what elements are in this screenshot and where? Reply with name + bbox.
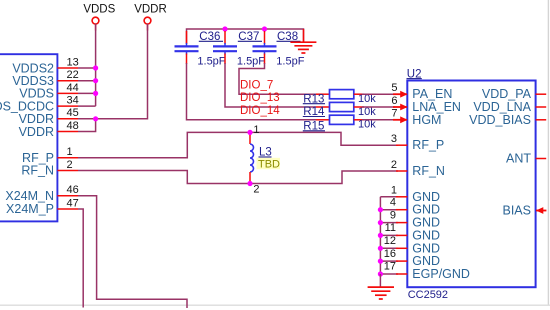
svg-text:47: 47 [67, 197, 79, 209]
wire X24M_P [78, 209, 83, 308]
U2 reference label [407, 68, 422, 80]
U2 pin 9 wire+stub (GND) [380, 222, 407, 224]
L3 value TBD (highlighted) [257, 158, 281, 171]
U2 right pin ANT stub [536, 158, 547, 160]
power symbol VDDR [134, 4, 167, 31]
junction dot rail C38 [262, 26, 267, 31]
svg-text:1: 1 [67, 146, 73, 158]
junction dot rail C37 [222, 26, 227, 31]
junction dot GND pin11 [378, 233, 383, 238]
svg-text:7: 7 [391, 108, 397, 120]
inductor L3 [250, 132, 254, 183]
wire C37 bottom to R14 (net DIO_13) [225, 63, 316, 107]
svg-text:12: 12 [384, 235, 396, 247]
pin 22 stub [57, 80, 78, 82]
svg-text:2: 2 [253, 184, 259, 196]
svg-text:RF_P: RF_P [412, 138, 444, 152]
wire VDDR vertical [78, 24, 148, 119]
wire pin34 to bus [78, 105, 96, 107]
U2 right pin BIAS arrow (input) [536, 207, 547, 214]
resistor R14 [316, 102, 364, 111]
resistor R15 [316, 115, 364, 124]
C36 reference label [199, 31, 223, 43]
L3 reference label [259, 147, 272, 159]
junction dot L3 pin2 [247, 181, 252, 186]
page frame bottom border [0, 304, 550, 306]
svg-text:VDDR: VDDR [19, 125, 54, 139]
wire RF_N from MCU [78, 171, 398, 184]
pin 46 stub (X24M_N) [57, 195, 78, 197]
U2 pin 17 wire+stub (EGP/GND) [380, 273, 407, 275]
R13 reference label [303, 93, 325, 105]
svg-text:2: 2 [67, 159, 73, 171]
pin 2 stub (RF_N) [57, 170, 78, 172]
junction dot VDDS pin13 [93, 65, 98, 70]
svg-text:DIO_13: DIO_13 [240, 92, 280, 104]
svg-text:2: 2 [391, 159, 397, 171]
svg-text:9: 9 [390, 209, 396, 221]
svg-text:45: 45 [67, 107, 79, 119]
U2 pin 4 wire+stub (GND) [380, 209, 407, 211]
svg-text:GND: GND [412, 190, 440, 204]
svg-text:TBD: TBD [258, 158, 280, 170]
U2 pin 11 wire+stub (GND) [380, 234, 407, 236]
pin 34 stub [57, 105, 78, 107]
wire RF_P from MCU [78, 132, 398, 157]
wire VDDR pin48 link [78, 119, 96, 132]
C38 reference label [277, 31, 301, 43]
svg-text:3: 3 [391, 133, 397, 145]
svg-text:48: 48 [67, 120, 79, 132]
svg-text:DIO_14: DIO_14 [240, 105, 280, 117]
power symbol VDDS [83, 4, 115, 31]
U2 pin 5 arrow (PA_EN input) [393, 91, 408, 98]
U2 pin 3 stub (RF_P) [396, 144, 407, 146]
ground (top, near C38) [290, 29, 316, 53]
wire pin13 to bus [78, 67, 96, 69]
U2 pin 2 stub (RF_N) [396, 170, 407, 172]
wire R15 to U2 pin7 [362, 119, 395, 121]
wire VDDS vertical bus [95, 24, 97, 107]
U2 pin 12 wire+stub (GND) [380, 247, 407, 249]
svg-text:BIAS: BIAS [503, 204, 532, 218]
U2 GND bus vertical [379, 197, 381, 274]
svg-text:44: 44 [67, 82, 79, 94]
R14 reference label [303, 106, 325, 118]
U2 right pin VDD_PA stub [536, 93, 547, 95]
svg-text:VDDS: VDDS [83, 4, 115, 16]
pin 45 stub [57, 118, 78, 120]
U2 block body (CC2592) [407, 81, 535, 288]
svg-text:X24M_N: X24M_N [5, 189, 54, 203]
svg-text:13: 13 [67, 56, 79, 68]
svg-text:6: 6 [391, 95, 397, 107]
R15 reference label [303, 121, 325, 133]
U2 pin 16 wire+stub (GND) [380, 260, 407, 262]
svg-text:17: 17 [384, 261, 396, 273]
ground (below U2 GND bus) [368, 274, 394, 299]
svg-text:CC2592: CC2592 [408, 289, 448, 301]
junction dot L3 pin1 [247, 130, 252, 135]
svg-text:46: 46 [67, 184, 79, 196]
capacitor C36 [175, 31, 199, 64]
C37 reference label [238, 31, 262, 43]
pin 48 stub [57, 131, 78, 133]
pin 1 stub (RF_P) [57, 157, 78, 159]
junction dot VDDR pin45 [93, 116, 98, 121]
wire R14 to U2 pin6 [362, 106, 395, 108]
junction dot GND pin12 [378, 246, 383, 251]
svg-text:GND: GND [412, 228, 440, 242]
junction dot GND pin9 [378, 220, 383, 225]
wire C36 bottom to R15 (net DIO_14) [187, 63, 317, 120]
U2 pin 6 arrow (LNA_EN input) [393, 104, 408, 111]
svg-text:4: 4 [390, 196, 396, 208]
svg-text:1: 1 [253, 124, 259, 136]
svg-text:1.5pF: 1.5pF [197, 55, 225, 67]
svg-text:RF_N: RF_N [412, 164, 445, 178]
page frame right border [547, 0, 549, 305]
svg-text:34: 34 [67, 95, 79, 107]
svg-text:1: 1 [391, 185, 397, 197]
capacitor C37 [213, 31, 237, 64]
svg-text:5: 5 [391, 82, 397, 94]
svg-text:GND: GND [412, 203, 440, 217]
svg-text:X24M_P: X24M_P [6, 202, 54, 216]
wire C38 bottom to R13 (net DIO_7) [239, 63, 316, 94]
svg-text:1.5pF: 1.5pF [276, 55, 304, 67]
svg-text:ANT: ANT [506, 152, 531, 166]
junction dot GND pin4 [378, 207, 383, 212]
U2 pin 7 arrow (HGM input) [393, 116, 408, 123]
svg-text:HGM: HGM [412, 113, 441, 127]
svg-text:VDD_BIAS: VDD_BIAS [469, 113, 531, 127]
junction dot VDDS pin22 [93, 78, 98, 83]
wire R13 to U2 pin5 [362, 93, 395, 95]
pin 44 stub [57, 92, 78, 94]
wire pin22 to bus [78, 80, 96, 82]
pin 47 stub (X24M_P) [57, 208, 78, 210]
U2 right pin VDD_BIAS stub [536, 119, 547, 121]
svg-text:GND: GND [412, 254, 440, 268]
resistor R13 [316, 90, 364, 99]
wire capacitor top rail [187, 29, 304, 44]
svg-text:EGP/GND: EGP/GND [412, 267, 470, 281]
svg-text:DIO_7: DIO_7 [240, 80, 273, 92]
svg-text:GND: GND [412, 241, 440, 255]
pin 13 stub [57, 67, 78, 69]
svg-text:16: 16 [384, 248, 396, 260]
svg-text:VDDR: VDDR [134, 4, 167, 16]
svg-text:1.5pF: 1.5pF [237, 55, 265, 67]
capacitor C38 [253, 31, 277, 64]
svg-text:RF_N: RF_N [21, 164, 54, 178]
junction dot GND pin17 [378, 271, 383, 276]
MCU block (left IC) body [0, 54, 57, 221]
U2 right pin VDD_LNA stub [536, 106, 547, 108]
junction dot VDDS pin44 [93, 91, 98, 96]
wire pin44 to bus [78, 92, 96, 94]
wire X24M_N [78, 196, 187, 308]
svg-text:11: 11 [385, 222, 396, 234]
U2 pin 1 wire+stub (GND) [380, 196, 407, 198]
svg-text:22: 22 [67, 69, 79, 81]
junction dot GND pin16 [378, 259, 383, 264]
